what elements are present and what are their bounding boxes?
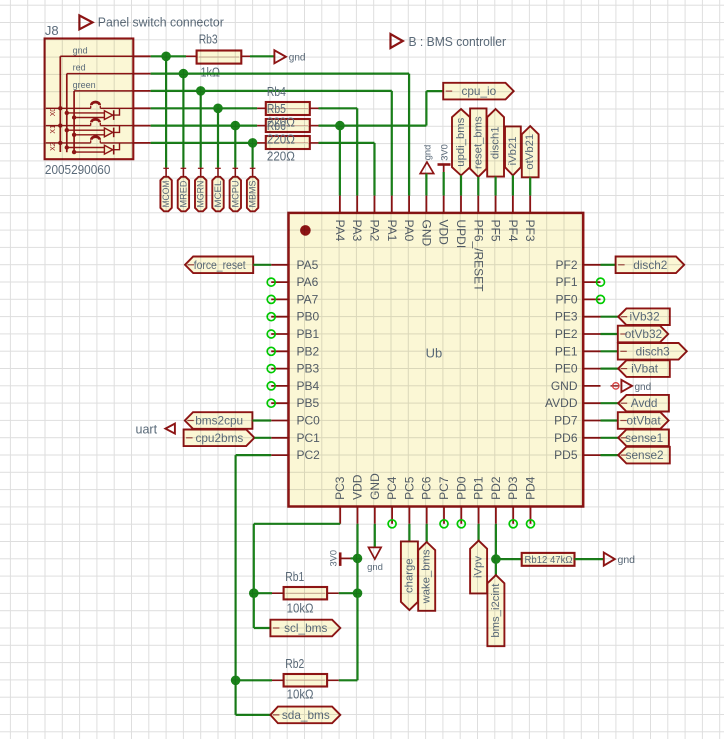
wire PD2 down to bms_i2cint [495, 524, 497, 575]
resistor Rb4 stubs [257, 107, 266, 109]
wire PD6 to sense1 [601, 437, 619, 439]
wire gnd symbol to GND pin [425, 174, 427, 196]
wire net gnd from J8 [151, 55, 186, 57]
wire X2 to pin PA2 [319, 142, 375, 144]
net flag charge [401, 541, 418, 610]
tag stub for MCEL [217, 168, 219, 177]
junction PD2 / Rb12 [491, 554, 501, 564]
net flag bms_i2cint [487, 575, 504, 646]
gnd supply (top, GND pin) [420, 162, 434, 173]
IC left pin stubs [271, 264, 288, 266]
net flag sda_bms [270, 707, 340, 724]
wire PC3 to scl_bms/Rb1 net [254, 523, 340, 525]
wire net green from J8 [151, 90, 392, 92]
net flag reset_bms [470, 108, 486, 176]
IC right pin stubs [583, 264, 600, 266]
wire X1 up to cpu_io flag [425, 91, 427, 126]
unconnected pin circles (bottom) [388, 520, 396, 528]
net flag scl_bms [270, 620, 340, 637]
wire X1 to cpu_io corner [319, 124, 427, 126]
wire net X0 from J8 [151, 107, 258, 109]
wire force_reset to PA5 [253, 264, 271, 266]
wire PD1 to iVpv [478, 524, 480, 541]
wire net X2 from J8 [151, 142, 258, 144]
uart arrow [165, 424, 175, 434]
net flag disch2 [616, 257, 685, 274]
wire X0 drop to MCEL [217, 108, 219, 167]
J8 pin red [67, 73, 134, 75]
junction Rb1 left [249, 588, 259, 598]
net flag otVb21 [522, 126, 539, 177]
unconnected pin circles (right) [597, 278, 605, 286]
net flag iVb21 [505, 126, 521, 175]
net flag bms2cpu [185, 412, 253, 429]
wire Rb1 right to VDD net [339, 592, 358, 594]
resistor Rb3 [197, 51, 242, 64]
net flag sense2 [618, 447, 670, 464]
junction on X0 net [213, 104, 223, 114]
J8 switch unit X1 [46, 118, 134, 137]
net flag cpu_io [443, 83, 514, 100]
tag stub for MCOM [165, 168, 167, 177]
wire PD5 to sense2 [601, 454, 619, 456]
J8 internal rail from red [66, 74, 68, 153]
net flag MCEL [212, 177, 223, 212]
wire net red from J8 [151, 72, 410, 74]
wire PC2 to sda_bms net [236, 454, 272, 456]
net flag disch1 [487, 109, 504, 177]
junction X1 at PA4 column [335, 121, 345, 131]
net flag cpu2bms [184, 430, 255, 447]
wire iVb21 to PF4 pin [512, 175, 514, 195]
resistor Rb3 stubs [186, 55, 197, 57]
net flag Avdd [618, 395, 669, 412]
IC bottom pin stubs [339, 507, 341, 524]
wire AVDD to Avdd [601, 402, 619, 404]
wire PC5 to charge [408, 524, 410, 545]
J8 internal rail from green [73, 91, 75, 153]
gnd arrow at GND pin (right) [621, 380, 632, 392]
resistor Rb4 [266, 102, 310, 115]
wire junction to Rb12 [496, 558, 522, 560]
wire red to pin PA0 [408, 74, 410, 196]
wire PE3 to iVb32 [601, 316, 619, 318]
net flag MRED [178, 177, 189, 212]
wire net X1 from J8 [151, 124, 258, 126]
wire PE0 to iVbat [601, 368, 619, 370]
wire PF2 to disch2 [601, 264, 616, 266]
gnd supply arrow (top left) [274, 50, 286, 63]
IC Ub body [289, 213, 584, 507]
net flag wake_bms [418, 542, 435, 611]
title marker: Panel switch connector [79, 16, 92, 30]
resistor Rb12 [522, 553, 575, 566]
wire bms2cpu to PC0 [252, 419, 271, 421]
tag stub for MRED [182, 168, 184, 177]
wire gnd drop to MCOM [165, 56, 167, 167]
junction Rb2 left [231, 676, 241, 686]
resistor Rb2 [284, 674, 328, 687]
wire otVb21 to PF3 pin [529, 177, 531, 195]
junction on gnd net [161, 52, 171, 62]
resistor Rb5 [266, 119, 310, 132]
wire to Rb1 left [254, 592, 272, 594]
wire red drop to MRED [182, 74, 184, 168]
net flag MGRN [195, 177, 206, 212]
wire X0 to pin PA3 [319, 107, 358, 109]
wire 3V0 to VDD pin [443, 172, 445, 196]
junction on green net [196, 86, 206, 96]
net flag MCOM [160, 177, 171, 212]
junction Rb1 right on VDD net [353, 588, 363, 598]
resistor Rb1 stubs [272, 592, 284, 594]
connector J8 [45, 39, 134, 160]
wire PD7 to otVbat [601, 419, 618, 421]
IC Ub pin-1 mark [300, 225, 311, 236]
resistor Rb1 [284, 587, 328, 599]
junction VDD / 3V0 [353, 554, 363, 564]
net flag updi_bms [452, 109, 470, 175]
net flag disch3 [618, 343, 687, 360]
wire Rb2 right to VDD net corner [339, 679, 358, 681]
wire disch1 to PF5 pin [495, 177, 497, 196]
J8 pin green [74, 90, 133, 92]
3V0 supply (top, VDD pin) [438, 163, 451, 166]
resistor Rb5 stubs [257, 125, 266, 127]
net flag iVbat [618, 360, 670, 377]
J8 pin stubs to nets [133, 55, 150, 57]
tag stub for MBMS [252, 168, 254, 177]
net flag iVb32 [618, 308, 670, 325]
wire reset_bms to PF6 pin [477, 177, 479, 196]
J8 switch unit X0 [46, 101, 134, 120]
wire Rb3 to gnd flag [250, 55, 274, 57]
wire Rb2 net from PC2 line [236, 679, 272, 681]
wire PE1 to disch3 [601, 350, 618, 352]
net flag iVpv [470, 541, 487, 594]
net flag otVbat [618, 412, 669, 429]
gnd supply (bottom, GND pin) [374, 524, 376, 548]
resistor Rb2 stubs [272, 679, 284, 681]
IC top pin stubs [339, 196, 341, 213]
net flag sense1 [618, 430, 669, 447]
gnd arrow after Rb12 [604, 553, 615, 566]
tag stub for MGRN [200, 168, 202, 177]
J8 pin gnd [60, 55, 133, 57]
wire PE2 to otVb32 [601, 333, 618, 335]
wire cpu2bms to PC1 [254, 437, 271, 439]
resistor Rb6 stubs [257, 142, 266, 144]
wire green drop to MGRN [200, 91, 202, 168]
wire X2 drop to MBMS [252, 143, 254, 168]
net flag otVb32 [618, 326, 668, 343]
J8 internal rail from gnd [59, 56, 61, 152]
unconnected pin circles (left) [267, 278, 275, 286]
wire updi_bms to UPDI pin [460, 175, 462, 195]
unconnected GND pin circle (red) [611, 385, 620, 387]
resistor Rb6 [266, 136, 310, 149]
net flag MCPU [230, 177, 241, 212]
net flag MBMS [247, 177, 258, 212]
junction on X1 net [231, 121, 241, 131]
tag stub for MCPU [234, 168, 236, 177]
junction on X2 net [248, 138, 258, 148]
wire green to pin PA1 [391, 91, 393, 196]
wire X1 drop to pin PA4 [339, 126, 341, 196]
wire Rb12 to gnd arrow [575, 558, 604, 560]
junction on red net [179, 69, 189, 79]
wire VDD pin down [356, 524, 358, 681]
net flag force_reset [185, 257, 253, 274]
3V0 supply (bottom) [339, 552, 342, 566]
title marker: B : BMS controller [391, 34, 403, 48]
J8 switch unit X2 [46, 135, 134, 154]
wire PC6 to wake_bms [426, 524, 428, 542]
wire X1 drop to MCPU [234, 126, 236, 168]
